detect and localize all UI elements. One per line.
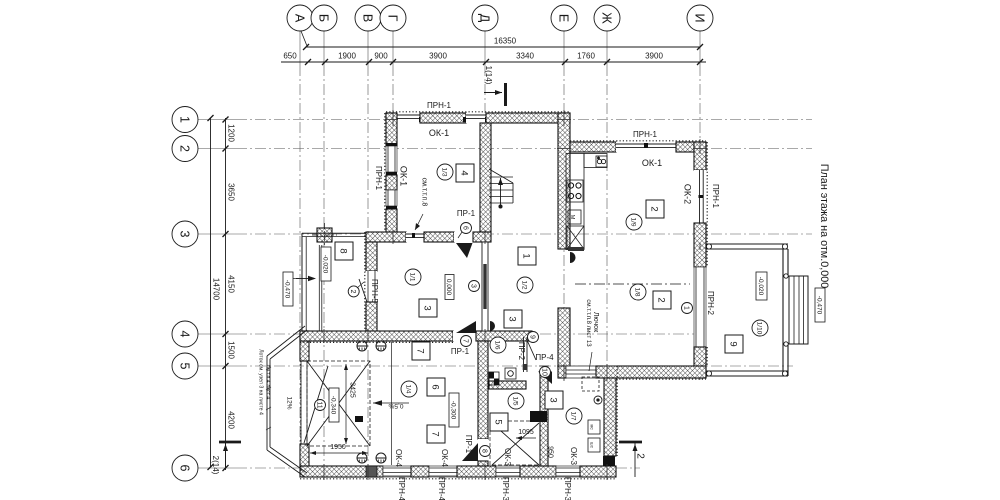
svg-text:ПРН-1: ПРН-1 — [633, 130, 658, 139]
svg-text:2: 2 — [648, 206, 659, 211]
axis I through H4 — [699, 139, 701, 154]
svg-text:ПРН-3: ПРН-3 — [563, 477, 572, 500]
dimension chain left (inner line) — [225, 118, 227, 467]
dining axis dashdot — [575, 283, 690, 285]
axis E through H1 — [563, 110, 565, 126]
partition lobby right (O) — [523, 337, 525, 372]
svg-text:7: 7 — [461, 339, 468, 343]
dotted edge kitchen top — [570, 140, 706, 142]
svg-text:1/1: 1/1 — [409, 272, 416, 281]
svg-text:3: 3 — [421, 305, 432, 310]
svg-text:1/9: 1/9 — [630, 217, 637, 226]
svg-text:Лоток см. узел 3 на листе 4: Лоток см. узел 3 на листе 4 — [258, 349, 264, 415]
svg-text:ПР-2: ПР-2 — [517, 342, 526, 361]
door leaf corridor — [456, 321, 476, 333]
room tag square 3 wc — [545, 391, 563, 409]
dim 1950 ramp — [310, 452, 368, 454]
window OK-1 left wall lower — [386, 190, 397, 206]
svg-text:шс: шс — [589, 442, 594, 449]
svg-text:1950: 1950 — [330, 444, 346, 451]
window OK-3 a — [496, 466, 520, 477]
axis bubble А — [287, 5, 313, 31]
svg-text:8: 8 — [480, 449, 487, 453]
window OK-4 b — [429, 466, 457, 477]
axis G through H2 — [392, 230, 394, 244]
kitchen top counter — [584, 154, 607, 168]
door leaf PRN-5 — [359, 279, 367, 302]
wall garage/corridor top (M) seg a — [300, 331, 453, 341]
staircase — [489, 176, 513, 178]
svg-text:7: 7 — [414, 348, 425, 353]
garage ramp cross — [307, 361, 370, 446]
elevation -0,340 ramp — [329, 388, 339, 422]
ramp bay bottom chamfer — [267, 450, 305, 477]
svg-text:7: 7 — [429, 431, 440, 436]
svg-text:ОК-1: ОК-1 — [642, 158, 662, 168]
svg-text:ПР-4: ПР-4 — [535, 353, 554, 362]
bath shower cross — [492, 423, 539, 465]
axis line Е (vertical) — [563, 30, 565, 65]
svg-text:ПРН-5: ПРН-5 — [370, 279, 379, 304]
axis bubble В — [355, 5, 381, 31]
axis bubble И — [687, 5, 713, 31]
wall K seg e — [580, 466, 616, 477]
wall hall/kitchen (V4) seg a — [558, 113, 570, 249]
wall K seg d — [520, 466, 556, 477]
axis r5 through V4 — [557, 365, 571, 367]
svg-text:3340: 3340 — [516, 52, 534, 61]
room tag square 2 dining — [653, 291, 671, 309]
wall V2 seg b — [386, 175, 397, 190]
door circle 9 — [528, 332, 539, 343]
door circle 11 — [315, 400, 326, 411]
dotted edge V5 left — [364, 232, 366, 331]
door circle 8 — [480, 446, 491, 457]
wall V5k seg b — [694, 223, 706, 267]
svg-text:Ж: Ж — [599, 12, 613, 24]
svg-text:ПРН-4: ПРН-4 — [437, 477, 446, 500]
veranda corner posts — [706, 244, 711, 249]
dimension 14700 overall (left) — [210, 118, 212, 467]
svg-text:1/5: 1/5 — [512, 396, 519, 405]
room tag circle 1/7 — [566, 408, 582, 424]
axis G through H1 — [392, 110, 394, 126]
svg-text:5: 5 — [177, 363, 191, 370]
ramp bay wall ticks — [266, 367, 271, 370]
door PRN-5 opening — [366, 271, 377, 302]
kitchen sink top — [596, 156, 607, 167]
wall garage left (L) seg a — [300, 331, 309, 361]
room tag square 1 — [518, 247, 536, 265]
wall top of room 4 and hall (H1) seg a — [386, 113, 394, 123]
svg-text:1760: 1760 — [577, 52, 595, 61]
svg-text:950: 950 — [546, 446, 553, 458]
svg-text:4200: 4200 — [227, 411, 236, 429]
door circle 3 — [469, 281, 480, 292]
axis I through veranda — [699, 243, 701, 250]
door opening corridor — [453, 331, 476, 341]
axis line Ж (vertical) — [606, 30, 608, 65]
kitchen counter — [566, 154, 584, 250]
svg-text:ПРН-3: ПРН-3 — [501, 477, 510, 500]
svg-text:ОК-2: ОК-2 — [683, 184, 693, 204]
svg-text:6: 6 — [429, 384, 440, 389]
WC boiler — [594, 396, 602, 404]
svg-text:ОК-3: ОК-3 — [569, 447, 578, 466]
wall kitchen right (V5k) seg a — [694, 142, 706, 170]
room tag circle 1/8 — [630, 284, 646, 300]
svg-text:ПРН-1: ПРН-1 — [711, 184, 720, 209]
svg-text:ПРН-2: ПРН-2 — [706, 291, 715, 316]
axis E through H5 — [563, 364, 565, 381]
svg-text:-0,020: -0,020 — [322, 255, 329, 274]
dimension 16350 overall (top) — [306, 46, 700, 48]
wall bath/WC divider (Q) — [540, 372, 548, 466]
window OK-1 in H1 — [394, 113, 420, 123]
garage wall posts — [357, 341, 367, 351]
wall stair/room4 (V3) — [480, 123, 491, 232]
axis V through M — [367, 329, 369, 343]
black halfdisc near room3 tag — [490, 321, 495, 331]
dim 3425 ramp — [345, 364, 347, 444]
wall west of room 3 (V5) seg a — [366, 242, 377, 271]
room tag square 3 room3 — [419, 299, 437, 317]
svg-text:А: А — [292, 14, 306, 23]
axis line 6 (horizontal) — [198, 467, 236, 469]
svg-text:2: 2 — [349, 289, 356, 293]
svg-text:6: 6 — [177, 465, 191, 472]
dotted edge H5 bottom — [616, 378, 706, 380]
svg-text:8: 8 — [337, 248, 348, 253]
room tag circle 1/4 — [401, 381, 417, 397]
door circle 7 — [461, 336, 472, 347]
elevation -0,020 annex — [321, 247, 331, 281]
svg-text:Лючок: Лючок — [592, 312, 599, 333]
room tag square 7 a — [412, 342, 430, 360]
window OK-3 b — [556, 466, 580, 477]
annex level dashdot — [290, 278, 299, 280]
room tag circle 1/2 — [517, 277, 533, 293]
room tag square 8 annex — [335, 242, 353, 260]
svg-text:5: 5 — [492, 419, 503, 424]
black block near lobby — [530, 411, 547, 422]
dotted edge kitchen right — [706, 142, 708, 267]
dotted edge M bottom — [300, 341, 453, 343]
garage gate leaf — [304, 366, 328, 443]
axis line 1 (horizontal) — [198, 119, 236, 121]
svg-text:1095: 1095 — [518, 429, 534, 436]
axis line 5 (horizontal) — [198, 365, 236, 367]
wall H1 seg b — [420, 113, 466, 123]
svg-text:1: 1 — [520, 253, 531, 258]
room tag square 3 hall-south — [504, 310, 522, 328]
room tag square 7 b — [427, 425, 445, 443]
partition room3/hall — [482, 242, 488, 331]
svg-text:см.т.п.4 лист 4: см.т.п.4 лист 4 — [265, 365, 271, 400]
wall V5k seg c — [694, 347, 706, 378]
svg-text:9: 9 — [727, 341, 738, 346]
door opening garage-bath — [478, 439, 488, 461]
WC fixture wc — [588, 420, 600, 434]
door leaf garage-bath — [462, 443, 478, 461]
svg-text:4150: 4150 — [227, 275, 236, 293]
annex level arrow — [296, 278, 311, 280]
lobby washbasin — [505, 368, 516, 379]
axis line А (vertical) — [299, 30, 301, 65]
svg-text:ОК-4: ОК-4 — [394, 449, 403, 468]
veranda bottom wall — [706, 370, 788, 372]
room tag circle 1/5 — [508, 393, 524, 409]
WC door leaves — [538, 372, 552, 385]
svg-text:И: И — [692, 14, 706, 23]
window OK-4 a — [383, 466, 411, 477]
svg-text:3650: 3650 — [227, 183, 236, 201]
svg-text:см.т.т.п.8 лист 13: см.т.т.п.8 лист 13 — [585, 299, 591, 347]
window in H1 above stair — [466, 113, 486, 123]
WC fixture sink — [588, 438, 600, 452]
door circle 2 — [348, 286, 359, 297]
svg-text:1/8: 1/8 — [634, 287, 641, 296]
svg-text:0,5%: 0,5% — [388, 402, 403, 409]
axis V through south — [367, 464, 369, 480]
kitchen stove — [567, 180, 583, 202]
axis r1 through V2 — [385, 119, 398, 121]
axis line Б (vertical) — [323, 30, 325, 65]
axis bubble 4 — [172, 321, 198, 347]
svg-text:1200: 1200 — [227, 124, 236, 142]
axis bubble Г — [380, 5, 406, 31]
room tag square 9 veranda — [725, 335, 743, 353]
wall L seg b — [300, 444, 309, 466]
svg-text:2: 2 — [634, 453, 645, 459]
svg-text:1/4: 1/4 — [405, 384, 412, 393]
svg-text:Е: Е — [556, 14, 570, 22]
svg-text:1500: 1500 — [227, 341, 236, 359]
svg-text:6: 6 — [461, 226, 468, 230]
svg-text:см.т.т.п.8: см.т.т.п.8 — [420, 178, 427, 207]
svg-text:1(14): 1(14) — [484, 66, 493, 85]
axis bubble Б — [311, 5, 337, 31]
svg-text:План этажа на отм.0,000: План этажа на отм.0,000 — [818, 164, 830, 288]
svg-text:мс: мс — [589, 424, 594, 430]
axis D through south — [484, 464, 486, 480]
dotted edge kitchen right low — [706, 347, 708, 366]
svg-text:4: 4 — [458, 170, 469, 175]
chimney block — [317, 228, 332, 242]
room tag circle 1/3 — [437, 164, 453, 180]
wall V5 seg b — [366, 302, 377, 332]
svg-text:ОК-4: ОК-4 — [440, 449, 449, 468]
door circle 10 — [540, 367, 551, 378]
axis bubble 5 — [172, 353, 198, 379]
svg-text:11: 11 — [315, 401, 322, 408]
axis line 2 (horizontal) — [198, 148, 236, 150]
svg-text:-0,020: -0,020 — [757, 277, 764, 296]
wall bottom of room 4 (H2) seg a — [366, 232, 406, 242]
window OK-2 — [694, 170, 706, 223]
veranda top wall — [706, 243, 788, 245]
wall N seg b — [478, 461, 488, 466]
svg-text:ПРН-1: ПРН-1 — [427, 101, 452, 110]
section mark 1(14) top — [504, 83, 507, 106]
elevation -0,300 garage — [449, 393, 459, 427]
wall H4 seg b — [676, 142, 706, 152]
elevation -0,470 left — [283, 272, 293, 306]
axis r5 through Q — [539, 365, 549, 367]
door leaf PR-1 room4 — [456, 243, 473, 258]
axis bubble 2 — [172, 136, 198, 162]
dotted edge H1 top — [386, 111, 570, 113]
slope 0,5% arrow — [373, 402, 409, 404]
svg-text:3900: 3900 — [429, 52, 447, 61]
door circle 1 — [682, 303, 693, 314]
room tag square 4 — [456, 164, 474, 182]
floor drain garage — [355, 416, 363, 422]
axis bubble 3 — [172, 221, 198, 247]
room tag circle 1/9 — [626, 214, 642, 230]
axis bubble 6 — [172, 455, 198, 481]
garage ramp dashed — [307, 361, 370, 446]
wall kitchen top (H4) seg a — [570, 142, 616, 152]
wall V4 seg b — [558, 308, 570, 368]
axis r2 through V4 — [557, 148, 571, 150]
svg-text:1900: 1900 — [338, 52, 356, 61]
axis r1 through V4 — [557, 119, 571, 121]
svg-text:650: 650 — [283, 52, 297, 61]
svg-text:1: 1 — [177, 116, 191, 123]
svg-text:ПР-1: ПР-1 — [457, 209, 476, 218]
axis line Д (vertical) — [484, 30, 486, 65]
svg-text:2: 2 — [655, 297, 666, 302]
svg-text:10: 10 — [540, 368, 547, 376]
svg-text:1/6: 1/6 — [494, 340, 501, 349]
svg-text:2(14): 2(14) — [211, 456, 220, 475]
section mark 2 bottom-right — [619, 441, 642, 444]
wall K seg c — [457, 466, 496, 477]
svg-text:3: 3 — [177, 231, 191, 238]
svg-text:-0,470: -0,470 — [284, 280, 291, 299]
svg-text:12%: 12% — [286, 396, 293, 409]
door PRN-2 opening (to veranda) — [694, 267, 706, 347]
wall bottom dining (H5) seg a — [558, 366, 566, 378]
room tag square 2 kitchen — [646, 200, 664, 218]
svg-text:1/3: 1/3 — [441, 167, 448, 176]
svg-text:900: 900 — [374, 52, 388, 61]
axis line Г (vertical) — [392, 30, 394, 65]
wall south (K) seg a — [300, 466, 383, 477]
dotted insulation south edge — [300, 478, 616, 480]
room tag square 5 bath — [490, 413, 508, 431]
svg-text:9: 9 — [528, 335, 535, 339]
svg-text:16350: 16350 — [494, 37, 517, 46]
svg-text:Г: Г — [385, 15, 399, 22]
svg-text:0,000: 0,000 — [445, 279, 452, 296]
junction V5/south dark — [366, 466, 377, 477]
wall H2 seg b — [424, 232, 454, 242]
axis B2 through south — [323, 464, 325, 480]
dotted edge V6 right — [616, 366, 618, 456]
section mark 2(14) bottom-left — [219, 441, 241, 444]
wall H5 seg b — [596, 366, 706, 378]
svg-text:-0,300: -0,300 — [450, 401, 457, 420]
ramp bay top chamfer — [267, 326, 305, 356]
svg-text:ПР-1: ПР-1 — [464, 435, 473, 454]
svg-text:4: 4 — [177, 331, 191, 338]
room tag circle 1/6 — [490, 337, 506, 353]
svg-text:ПРН-1: ПРН-1 — [374, 166, 383, 191]
ramp bay west wall — [266, 356, 268, 450]
axis Zh through south — [606, 464, 608, 480]
svg-text:1/2: 1/2 — [521, 280, 528, 289]
wall garage right (N) seg a — [478, 341, 488, 439]
kitchen washing machine — [568, 210, 581, 224]
axis D through H2 — [484, 230, 486, 244]
elevation -0,470 right — [815, 288, 825, 322]
axis D through M — [484, 329, 486, 343]
axis line 3 (horizontal) — [198, 233, 236, 235]
svg-text:М: М — [569, 215, 575, 220]
svg-text:ОК-1: ОК-1 — [399, 166, 409, 186]
svg-text:В: В — [360, 14, 374, 22]
window OK-1 left wall upper — [386, 146, 397, 172]
axis bubble 1 — [172, 107, 198, 133]
axis bubble Е — [551, 5, 577, 31]
svg-text:ОК-3: ОК-3 — [503, 448, 512, 467]
axis B2 through M — [323, 329, 325, 343]
kitchen fridge box — [567, 226, 584, 249]
axis Zh through H5 — [606, 364, 608, 381]
svg-text:14700: 14700 — [212, 278, 221, 301]
veranda steps — [789, 276, 808, 344]
wall lobby bottom (P) — [489, 381, 526, 389]
axis bubble Ж — [594, 5, 620, 31]
axis line 4 (horizontal) — [198, 333, 236, 335]
svg-text:ПРН-4: ПРН-4 — [397, 477, 406, 500]
elevation -0,020 veranda — [756, 272, 767, 300]
wall left of room 4 (V2) seg a — [386, 113, 397, 146]
wall K seg b — [411, 466, 429, 477]
wall H2 seg c — [473, 232, 491, 242]
wall M seg b — [476, 331, 532, 341]
svg-text:-0,340: -0,340 — [330, 396, 337, 415]
ramp edge line — [391, 342, 393, 465]
axis r2 through V5k — [693, 148, 707, 150]
window OK-1 kitchen top — [616, 142, 676, 152]
kitchen door halfdisc — [570, 252, 576, 263]
axis r5 through V6 — [603, 365, 617, 367]
elevation 0,000 hall — [445, 275, 454, 300]
axis A bent leader — [301, 31, 307, 46]
dotted edge V2 left — [384, 113, 386, 232]
dotted insulation west edge — [300, 331, 302, 478]
svg-text:1/10: 1/10 — [756, 322, 763, 335]
axis line В (vertical) — [367, 30, 369, 65]
pocket door in partition — [483, 264, 486, 309]
svg-text:3: 3 — [547, 397, 558, 402]
chimney duct lines — [318, 245, 320, 331]
wall H1 seg c — [486, 113, 570, 123]
annex porch outline — [302, 232, 366, 234]
svg-text:Б: Б — [316, 14, 330, 22]
WC appliance dashed — [582, 377, 599, 391]
garage gate opening — [300, 361, 302, 444]
wall V2 seg c — [386, 209, 397, 232]
svg-text:3: 3 — [506, 316, 517, 321]
room tag circle 1/1 — [405, 269, 421, 285]
axis bubble Д — [472, 5, 498, 31]
svg-text:1: 1 — [682, 306, 689, 310]
door PR-1 opening in H2 — [454, 232, 473, 242]
